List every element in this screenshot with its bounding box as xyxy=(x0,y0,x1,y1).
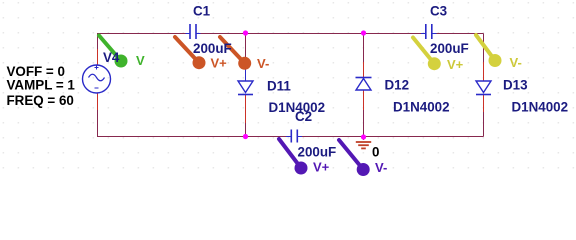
svg-text:D12: D12 xyxy=(385,78,410,93)
svg-text:200uF: 200uF xyxy=(193,41,232,56)
svg-text:0: 0 xyxy=(372,144,379,159)
svg-text:D13: D13 xyxy=(503,78,528,93)
svg-text:V+: V+ xyxy=(211,56,228,71)
svg-text:D1N4002: D1N4002 xyxy=(512,100,569,115)
svg-text:V-: V- xyxy=(375,160,387,175)
svg-text:V+: V+ xyxy=(313,160,330,175)
svg-text:D1N4002: D1N4002 xyxy=(393,100,450,115)
svg-text:VAMPL = 1: VAMPL = 1 xyxy=(7,78,76,93)
svg-text:V-: V- xyxy=(510,55,522,70)
svg-text:C3: C3 xyxy=(430,4,447,19)
svg-text:VOFF = 0: VOFF = 0 xyxy=(7,64,65,79)
svg-text:V+: V+ xyxy=(447,57,464,72)
svg-text:V-: V- xyxy=(257,56,269,71)
svg-text:C1: C1 xyxy=(193,4,211,19)
svg-text:D11: D11 xyxy=(267,79,291,94)
svg-text:D1N4002: D1N4002 xyxy=(269,100,326,115)
svg-text:V4: V4 xyxy=(103,50,120,65)
svg-text:FREQ = 60: FREQ = 60 xyxy=(7,93,74,108)
svg-text:200uF: 200uF xyxy=(430,41,469,56)
svg-text:200uF: 200uF xyxy=(298,145,337,160)
svg-text:V: V xyxy=(136,53,145,68)
